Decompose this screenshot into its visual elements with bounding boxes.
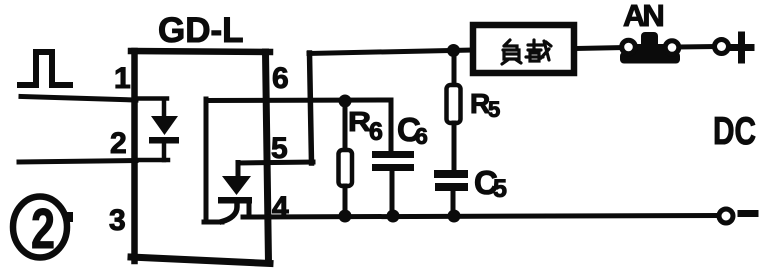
wire pin 6 gate line: [204, 99, 391, 222]
svg-text:5: 5: [271, 132, 288, 165]
junction node C5 bottom: [448, 210, 461, 223]
svg-text:5: 5: [493, 175, 507, 203]
junction node R5 top: [447, 44, 460, 57]
wire pin 1 input: [21, 97, 136, 101]
svg-text:3: 3: [109, 204, 126, 237]
pushbutton AN: [620, 32, 680, 64]
svg-text:2: 2: [110, 127, 127, 160]
svg-text:6: 6: [369, 118, 383, 146]
LED inside GD-L: [136, 99, 179, 161]
resistor R5: [447, 51, 461, 170]
svg-text:DC: DC: [713, 110, 756, 153]
resistor R6: [339, 101, 353, 216]
svg-text:GD-L: GD-L: [158, 11, 244, 50]
terminal minus: [719, 209, 733, 223]
wire pin 2 input: [19, 161, 136, 163]
svg-text:2: 2: [31, 197, 55, 261]
wire top rail after load: [577, 48, 623, 49]
svg-text:6: 6: [272, 62, 289, 95]
optocoupler GD-L box: [131, 51, 270, 264]
load box: [473, 25, 574, 73]
junction node R6 top: [339, 95, 352, 108]
wire riser to top rail: [310, 53, 312, 163]
svg-text:R: R: [348, 106, 371, 137]
capacitor C6: [372, 100, 414, 216]
svg-text:1: 1: [114, 62, 131, 95]
wire bottom rail: [243, 216, 719, 218]
thyristor inside GD-L: [218, 163, 252, 222]
label load (Chinese: fu zai): [502, 40, 551, 64]
circled figure number 2: [13, 197, 73, 262]
wire pin 5: [238, 162, 313, 163]
svg-text:6: 6: [415, 123, 428, 149]
pulse input signal: [20, 52, 70, 85]
svg-text:AN: AN: [623, 0, 663, 33]
label minus sign: [741, 210, 755, 217]
char 2: [526, 40, 551, 61]
svg-text:5: 5: [488, 97, 500, 122]
wire to plus terminal: [679, 44, 714, 50]
char 1: [502, 40, 521, 64]
terminal plus: [715, 40, 729, 54]
junction node R6 bottom: [339, 210, 352, 223]
capacitor C5: [434, 170, 468, 216]
junction node C6 bottom: [387, 210, 400, 223]
wire top rail: [309, 50, 471, 54]
label plus sign: [732, 35, 751, 60]
